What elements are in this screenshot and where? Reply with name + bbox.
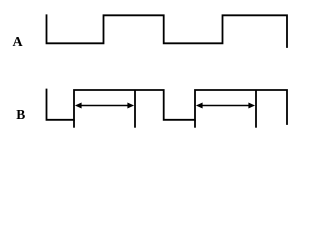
arrow 1 (double-headed, x=74..135, y=105.5): [75, 103, 134, 109]
svg-text:A: A: [13, 35, 24, 50]
waveform A: [47, 15, 288, 47]
wire: box2 left vertical extension below B low line at x=195: [194, 120, 196, 128]
wire: box1 right vertical at x=135: [134, 90, 136, 128]
waveform B: [47, 90, 288, 125]
svg-text:B: B: [16, 107, 25, 122]
wire: box1 left vertical extension below B low line at x=74: [73, 120, 75, 128]
wire: box2 right vertical at x=256: [255, 90, 257, 128]
arrow 2 (double-headed, x=195..256, y=105.5): [196, 103, 255, 109]
